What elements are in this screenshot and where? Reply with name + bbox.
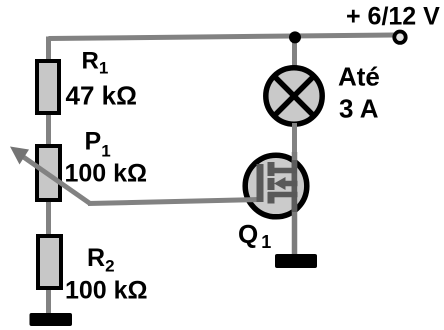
ground right	[275, 254, 317, 268]
svg-text:R2: R2	[87, 244, 115, 276]
svg-text:R1: R1	[82, 48, 109, 78]
svg-text:+ 6/12 V: + 6/12 V	[346, 3, 440, 31]
wire left branch vertical stub above R1	[46, 37, 51, 63]
svg-text:Até: Até	[338, 62, 380, 92]
svg-text:P1: P1	[85, 128, 111, 161]
wire R2 to ground	[46, 288, 51, 316]
Q1 gate bar	[257, 164, 264, 202]
wire wiper horizontal to gate	[88, 200, 261, 204]
svg-text:100 kΩ: 100 kΩ	[65, 160, 148, 188]
resistor R1	[37, 61, 59, 113]
wire P1 to R2	[46, 199, 51, 237]
wire rail to lamp	[292, 34, 297, 70]
Q1 channel segment bottom	[268, 192, 275, 204]
svg-text:3 A: 3 A	[339, 94, 379, 124]
terminal +6/12V open circle	[394, 32, 405, 43]
wire drain-source through line	[292, 152, 298, 256]
lamp L1 circle	[266, 68, 322, 124]
node junction dot at rail	[289, 31, 301, 43]
svg-text:100 kΩ: 100 kΩ	[65, 277, 148, 305]
svg-text:47 kΩ: 47 kΩ	[66, 81, 137, 111]
resistor R2	[38, 236, 61, 288]
Q1 body arrowhead	[274, 177, 286, 190]
Q1 channel segment top	[268, 162, 275, 176]
svg-text:Q1: Q1	[238, 219, 271, 252]
potentiometer P1 body	[37, 146, 60, 200]
wire top horizontal (+V rail)	[49, 35, 395, 39]
Q1 body arrow shaft	[284, 181, 298, 187]
wire wiper diagonal through P1	[22, 156, 90, 204]
P1 wiper arrowhead	[10, 147, 29, 165]
transistor Q1 body circle	[245, 155, 307, 217]
wire drain-source dark segment inside Q1	[292, 160, 298, 212]
Q1 channel segment middle	[268, 178, 275, 190]
lamp X stroke 1	[276, 78, 313, 115]
wire lamp to Q1	[292, 123, 297, 160]
ground left	[30, 313, 73, 326]
wire R1 to P1	[46, 112, 51, 148]
Q1 drain lead	[268, 168, 297, 174]
lamp X stroke 2	[276, 78, 313, 115]
Q1 source lead	[268, 192, 298, 198]
